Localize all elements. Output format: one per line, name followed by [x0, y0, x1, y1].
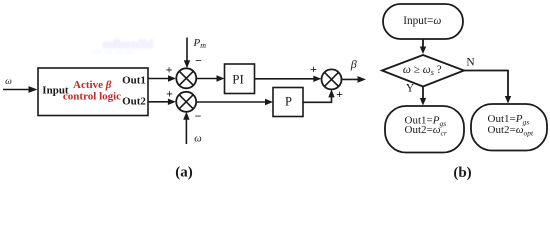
svg-text:Active β: Active β [73, 79, 112, 91]
svg-text:Pm: Pm [193, 37, 207, 50]
svg-text:N: N [466, 57, 475, 69]
svg-text:+: + [336, 87, 343, 101]
svg-text:β: β [350, 57, 357, 71]
svg-text:P: P [285, 94, 292, 108]
svg-text:+: + [310, 62, 317, 76]
svg-text:Out1: Out1 [122, 75, 146, 87]
svg-text:(b): (b) [453, 165, 471, 181]
svg-text:+: + [166, 63, 173, 77]
svg-text:+: + [166, 87, 173, 101]
svg-text:−: − [195, 54, 202, 68]
svg-text:Out2=ωcr: Out2=ωcr [405, 124, 447, 138]
svg-text:Y: Y [406, 82, 415, 94]
svg-text:ω: ω [5, 77, 12, 87]
svg-text:ω ≥ ωs ?: ω ≥ ωs ? [403, 64, 442, 77]
svg-text:Out2: Out2 [122, 96, 146, 108]
svg-text:control logic: control logic [63, 91, 121, 103]
svg-text:−: − [195, 109, 202, 123]
svg-text:ω: ω [194, 134, 201, 145]
svg-text:(a): (a) [175, 164, 193, 180]
svg-text:PI: PI [232, 71, 244, 86]
svg-text:Input=ω: Input=ω [403, 15, 441, 27]
